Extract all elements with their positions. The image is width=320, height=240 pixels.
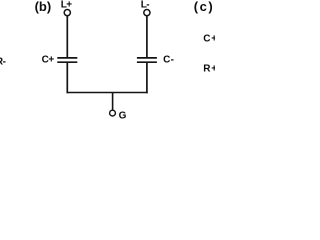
- svg-text:C+: C+: [203, 34, 215, 45]
- wire C+ bottom plate to bus: [66, 62, 68, 93]
- wire L+ to C+ top plate: [66, 16, 68, 58]
- svg-text:R-: R-: [0, 56, 6, 67]
- svg-text:L+: L+: [61, 0, 73, 10]
- ground terminal G: [110, 110, 116, 116]
- wire C- bottom plate to bus: [146, 62, 148, 93]
- svg-text:L-: L-: [141, 0, 150, 10]
- svg-text:C-: C-: [163, 55, 174, 66]
- terminal L-: [144, 10, 150, 16]
- terminal L+: [64, 10, 70, 16]
- capacitor C-: [137, 58, 157, 62]
- capacitor C+: [57, 58, 77, 62]
- svg-text:(c): (c): [194, 0, 214, 14]
- svg-text:R+: R+: [203, 64, 215, 75]
- svg-text:C+: C+: [42, 55, 55, 66]
- svg-text:G: G: [119, 110, 127, 120]
- wire L- to C- top plate: [146, 16, 148, 58]
- bottom bus wire: [67, 92, 148, 94]
- svg-text:(b): (b): [35, 0, 52, 14]
- wire bus to terminal G: [112, 93, 114, 111]
